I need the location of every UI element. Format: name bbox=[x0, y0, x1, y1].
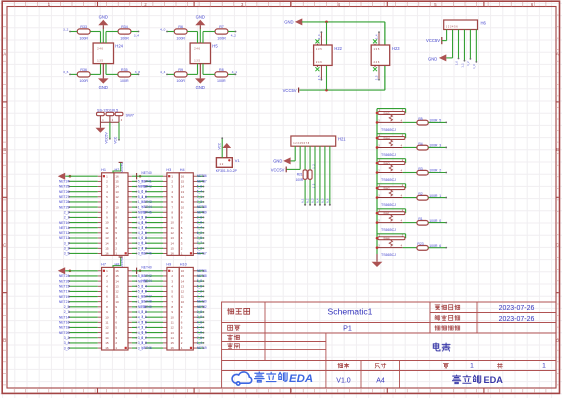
svg-text:1: 1 bbox=[470, 363, 474, 370]
svg-text:12: 12 bbox=[115, 290, 119, 294]
svg-text:GND: GND bbox=[428, 56, 437, 61]
svg-text:NET21: NET21 bbox=[59, 300, 70, 304]
svg-text:R2: R2 bbox=[418, 192, 422, 196]
svg-text:R4: R4 bbox=[418, 142, 422, 146]
svg-text:1 3 5: 1 3 5 bbox=[374, 47, 380, 51]
svg-text:12: 12 bbox=[105, 231, 109, 235]
svg-text:11: 11 bbox=[105, 226, 108, 230]
svg-text:R8: R8 bbox=[219, 68, 224, 72]
svg-text:3_3: 3_3 bbox=[64, 247, 70, 251]
svg-text:GND: GND bbox=[284, 20, 293, 25]
svg-text:100R: 100R bbox=[176, 36, 185, 40]
svg-text:2_5: 2_5 bbox=[141, 320, 147, 324]
svg-text:4_8: 4_8 bbox=[141, 289, 147, 293]
svg-text:3_4: 3_4 bbox=[134, 34, 139, 38]
svg-text:C: C bbox=[3, 243, 6, 248]
svg-text:13: 13 bbox=[115, 190, 119, 194]
svg-text:A4: A4 bbox=[376, 378, 385, 385]
svg-text:0_1: 0_1 bbox=[141, 241, 147, 245]
svg-text:B: B bbox=[3, 147, 6, 152]
svg-text:TS665CJ: TS665CJ bbox=[381, 253, 396, 257]
svg-text:SW1: SW1 bbox=[383, 212, 390, 216]
svg-text:NET24: NET24 bbox=[59, 274, 70, 278]
svg-text:NET45: NET45 bbox=[141, 210, 151, 214]
svg-text:4_0: 4_0 bbox=[160, 27, 165, 31]
svg-text:D: D bbox=[556, 338, 559, 343]
svg-text:A_2: A_2 bbox=[307, 198, 310, 203]
svg-text:2_5: 2_5 bbox=[64, 305, 70, 309]
svg-text:NET13: NET13 bbox=[59, 236, 70, 240]
svg-text:14: 14 bbox=[171, 336, 175, 340]
svg-text:2_7: 2_7 bbox=[141, 325, 147, 329]
svg-text:1 2 3 4 5 6 7 8: 1 2 3 4 5 6 7 8 bbox=[293, 142, 310, 145]
svg-text:R35: R35 bbox=[121, 68, 128, 72]
svg-text:GND: GND bbox=[196, 85, 205, 90]
svg-text:1 3 5: 1 3 5 bbox=[97, 59, 103, 62]
svg-text:NET12: NET12 bbox=[59, 231, 70, 235]
svg-text:NET10: NET10 bbox=[59, 221, 70, 225]
svg-text:1 2 3 4 5 6: 1 2 3 4 5 6 bbox=[446, 26, 458, 29]
svg-text:7_3: 7_3 bbox=[197, 200, 203, 204]
svg-text:2 4 6: 2 4 6 bbox=[316, 60, 322, 64]
svg-text:11: 11 bbox=[181, 200, 184, 204]
svg-text:0_8: 0_8 bbox=[197, 310, 203, 314]
svg-text:2_9: 2_9 bbox=[197, 315, 203, 319]
svg-text:NET16: NET16 bbox=[59, 321, 70, 325]
svg-text:16: 16 bbox=[181, 269, 185, 273]
svg-text:100R_5: 100R_5 bbox=[429, 119, 441, 123]
svg-text:H10: H10 bbox=[180, 263, 187, 267]
svg-text:NET29: NET29 bbox=[59, 205, 70, 209]
svg-text:NET19: NET19 bbox=[59, 295, 70, 299]
svg-text:100R: 100R bbox=[120, 36, 129, 40]
svg-text:3_3: 3_3 bbox=[141, 341, 147, 345]
svg-text:H23: H23 bbox=[392, 46, 400, 51]
svg-text:SW2: SW2 bbox=[383, 187, 390, 191]
svg-text:NET25: NET25 bbox=[59, 185, 70, 189]
svg-text:100R: 100R bbox=[176, 79, 185, 83]
svg-text:16: 16 bbox=[105, 252, 109, 256]
svg-text:1 3 5: 1 3 5 bbox=[194, 59, 200, 62]
svg-text:Schematic1: Schematic1 bbox=[328, 307, 373, 317]
svg-text:100R_0: 100R_0 bbox=[429, 219, 441, 223]
svg-text:15: 15 bbox=[181, 274, 185, 278]
svg-text:V1: V1 bbox=[235, 158, 241, 163]
svg-text:NET38: NET38 bbox=[197, 274, 207, 278]
svg-text:1_2: 1_2 bbox=[197, 246, 203, 250]
svg-text:3_6: 3_6 bbox=[64, 346, 70, 350]
svg-text:NET42: NET42 bbox=[141, 274, 151, 278]
svg-text:11: 11 bbox=[115, 200, 118, 204]
svg-text:2_1: 2_1 bbox=[141, 315, 147, 319]
svg-text:12: 12 bbox=[105, 326, 109, 330]
svg-text:VCC5V: VCC5V bbox=[271, 167, 285, 172]
svg-text:H7: H7 bbox=[101, 263, 106, 267]
svg-text:NET19: NET19 bbox=[197, 346, 207, 350]
svg-text:15: 15 bbox=[181, 180, 185, 184]
svg-text:H5: H5 bbox=[212, 44, 218, 49]
svg-text:13: 13 bbox=[171, 236, 175, 240]
svg-text:TS665CJ: TS665CJ bbox=[381, 203, 396, 207]
svg-text:7_8: 7_8 bbox=[197, 336, 203, 340]
svg-text:NET27: NET27 bbox=[59, 195, 70, 199]
svg-text:0_2: 0_2 bbox=[141, 190, 147, 194]
svg-text:R1: R1 bbox=[418, 217, 422, 221]
svg-text:2_8: 2_8 bbox=[197, 221, 203, 225]
svg-text:R21: R21 bbox=[297, 172, 303, 176]
svg-text:100R: 100R bbox=[296, 178, 304, 182]
svg-text:A_6: A_6 bbox=[326, 198, 329, 203]
svg-text:GND: GND bbox=[196, 15, 205, 20]
svg-text:2_3: 2_3 bbox=[141, 310, 147, 314]
svg-text:16: 16 bbox=[115, 269, 119, 273]
svg-text:1_1: 1_1 bbox=[460, 63, 464, 68]
svg-text:7_7: 7_7 bbox=[197, 241, 203, 245]
svg-text:16: 16 bbox=[181, 174, 185, 178]
svg-text:GND: GND bbox=[273, 159, 282, 164]
svg-text:NET39: NET39 bbox=[197, 210, 207, 214]
svg-text:14: 14 bbox=[115, 279, 119, 283]
svg-text:VCC: VCC bbox=[218, 142, 222, 149]
svg-text:3_2: 3_2 bbox=[141, 246, 147, 250]
svg-text:1_2: 1_2 bbox=[466, 61, 470, 66]
svg-text:NET41: NET41 bbox=[141, 179, 151, 183]
svg-text:A_5: A_5 bbox=[322, 198, 325, 203]
svg-text:VCC5V: VCC5V bbox=[426, 38, 440, 43]
svg-text:13: 13 bbox=[171, 331, 175, 335]
svg-text:15: 15 bbox=[115, 274, 119, 278]
svg-text:NET11: NET11 bbox=[59, 226, 69, 230]
svg-text:14: 14 bbox=[181, 185, 185, 189]
svg-text:P1: P1 bbox=[343, 324, 352, 333]
svg-text:14: 14 bbox=[105, 336, 109, 340]
svg-text:H3: H3 bbox=[166, 168, 171, 172]
svg-text:1 2: 1 2 bbox=[220, 162, 224, 166]
svg-text:100R_3: 100R_3 bbox=[429, 144, 441, 148]
svg-text:GND: GND bbox=[99, 15, 108, 20]
svg-text:VCC5V: VCC5V bbox=[120, 163, 124, 173]
svg-text:NET20: NET20 bbox=[59, 331, 70, 335]
svg-text:12: 12 bbox=[115, 195, 119, 199]
svg-text:VCC: VCC bbox=[114, 136, 118, 144]
svg-text:NET32: NET32 bbox=[197, 305, 207, 309]
svg-text:V1.0: V1.0 bbox=[336, 378, 351, 385]
svg-text:NET44: NET44 bbox=[141, 279, 151, 283]
svg-text:NET46: NET46 bbox=[141, 251, 151, 255]
svg-text:NET42: NET42 bbox=[141, 185, 151, 189]
svg-text:NET14: NET14 bbox=[59, 315, 70, 319]
svg-text:TS665CJ: TS665CJ bbox=[381, 153, 396, 157]
svg-text:NET44: NET44 bbox=[141, 205, 151, 209]
svg-text:NET26: NET26 bbox=[59, 279, 70, 283]
svg-text:16: 16 bbox=[115, 174, 119, 178]
svg-text:10: 10 bbox=[105, 221, 109, 225]
svg-text:3_5: 3_5 bbox=[375, 75, 379, 80]
svg-text:6_4: 6_4 bbox=[197, 325, 203, 329]
svg-text:7_2: 7_2 bbox=[197, 289, 203, 293]
svg-text:2_6: 2_6 bbox=[141, 231, 147, 235]
svg-text:R6: R6 bbox=[178, 25, 183, 29]
svg-text:11: 11 bbox=[105, 320, 108, 324]
svg-text:3_2: 3_2 bbox=[63, 27, 68, 31]
svg-text:10: 10 bbox=[181, 300, 185, 304]
svg-text:7_5: 7_5 bbox=[197, 236, 203, 240]
svg-text:4_4: 4_4 bbox=[197, 226, 203, 230]
svg-text:SW3: SW3 bbox=[383, 162, 390, 166]
svg-text:B: B bbox=[556, 147, 559, 152]
svg-text:EDA: EDA bbox=[484, 375, 504, 385]
svg-text:NET36: NET36 bbox=[197, 269, 207, 273]
svg-text:2_7: 2_7 bbox=[64, 310, 70, 314]
svg-text:14: 14 bbox=[171, 241, 175, 245]
svg-text:15: 15 bbox=[171, 341, 175, 345]
svg-text:2023-07-26: 2023-07-26 bbox=[499, 316, 535, 323]
svg-text:1_3: 1_3 bbox=[472, 64, 476, 69]
svg-text:A_4: A_4 bbox=[317, 198, 320, 203]
svg-text:14: 14 bbox=[181, 279, 185, 283]
svg-text:NET18: NET18 bbox=[59, 326, 70, 330]
svg-text:NET15: NET15 bbox=[59, 284, 70, 288]
svg-text:13: 13 bbox=[181, 284, 185, 288]
svg-text:13: 13 bbox=[181, 190, 185, 194]
svg-text:0_3: 0_3 bbox=[141, 236, 147, 240]
svg-text:100R: 100R bbox=[79, 79, 88, 83]
svg-text:4_1: 4_1 bbox=[232, 70, 237, 74]
svg-text:KF301-5.0-2P: KF301-5.0-2P bbox=[216, 169, 238, 173]
svg-text:1_0: 1_0 bbox=[454, 61, 458, 66]
svg-text:3_5: 3_5 bbox=[64, 252, 70, 256]
svg-text:16: 16 bbox=[171, 252, 175, 256]
svg-text:5_6: 5_6 bbox=[197, 185, 203, 189]
svg-text:SW5: SW5 bbox=[383, 111, 390, 115]
svg-text:TS665CJ: TS665CJ bbox=[381, 128, 396, 132]
svg-text:SW6: SW6 bbox=[383, 237, 390, 241]
svg-text:6_2: 6_2 bbox=[197, 231, 203, 235]
svg-text:3_6: 3_6 bbox=[63, 70, 68, 74]
svg-text:12: 12 bbox=[181, 195, 185, 199]
svg-text:15: 15 bbox=[115, 180, 119, 184]
svg-text:12: 12 bbox=[171, 326, 175, 330]
svg-text:12: 12 bbox=[181, 290, 185, 294]
svg-text:100R_6: 100R_6 bbox=[429, 244, 441, 248]
svg-text:2_3: 2_3 bbox=[64, 210, 70, 214]
svg-text:H24: H24 bbox=[115, 44, 123, 49]
svg-text:NET36: NET36 bbox=[197, 174, 207, 178]
svg-text:2 4 6: 2 4 6 bbox=[97, 47, 103, 50]
svg-text:15: 15 bbox=[105, 246, 109, 250]
svg-text:H22: H22 bbox=[334, 46, 342, 51]
svg-text:NET17: NET17 bbox=[197, 251, 207, 255]
svg-text:NET17: NET17 bbox=[59, 290, 70, 294]
svg-text:3_4: 3_4 bbox=[317, 34, 321, 39]
svg-text:11: 11 bbox=[171, 226, 174, 230]
svg-text:NET37: NET37 bbox=[197, 179, 207, 183]
svg-text:3_4: 3_4 bbox=[64, 341, 70, 345]
svg-text:10: 10 bbox=[105, 315, 109, 319]
svg-text:1 3 5: 1 3 5 bbox=[316, 47, 322, 51]
svg-text:100R: 100R bbox=[120, 79, 129, 83]
svg-text:1: 1 bbox=[542, 363, 546, 370]
svg-text:100R: 100R bbox=[217, 36, 226, 40]
svg-text:H1: H1 bbox=[101, 168, 106, 172]
svg-text:TS665CJ: TS665CJ bbox=[381, 228, 396, 232]
svg-text:A_3: A_3 bbox=[312, 198, 315, 203]
svg-text:3_1: 3_1 bbox=[64, 241, 70, 245]
svg-text:H6: H6 bbox=[481, 21, 487, 26]
svg-text:15: 15 bbox=[171, 246, 175, 250]
svg-text:GND: GND bbox=[99, 85, 108, 90]
svg-text:VCC5V: VCC5V bbox=[120, 257, 124, 267]
svg-text:14: 14 bbox=[105, 241, 109, 245]
svg-text:NET40: NET40 bbox=[141, 171, 151, 175]
svg-text:2 4 6: 2 4 6 bbox=[374, 60, 380, 64]
svg-text:2023-07-26: 2023-07-26 bbox=[499, 305, 535, 312]
svg-text:0_6: 0_6 bbox=[197, 215, 203, 219]
svg-text:1_4: 1_4 bbox=[197, 341, 203, 345]
svg-text:R5: R5 bbox=[418, 117, 422, 121]
svg-text:EDA: EDA bbox=[289, 373, 313, 385]
svg-text:NET40: NET40 bbox=[141, 266, 151, 270]
svg-text:2_2: 2_2 bbox=[141, 215, 147, 219]
svg-text:A: A bbox=[3, 52, 6, 57]
svg-text:R34: R34 bbox=[121, 25, 128, 29]
svg-text:13: 13 bbox=[115, 284, 119, 288]
svg-text:5_4: 5_4 bbox=[197, 190, 203, 194]
svg-text:100R: 100R bbox=[79, 36, 88, 40]
svg-text:3_8: 3_8 bbox=[135, 70, 140, 74]
svg-text:SW7: SW7 bbox=[126, 113, 134, 118]
svg-text:3_5: 3_5 bbox=[317, 75, 321, 80]
svg-text:NET26: NET26 bbox=[59, 190, 70, 194]
svg-text:2_4: 2_4 bbox=[141, 226, 147, 230]
svg-text:10: 10 bbox=[171, 221, 175, 225]
svg-text:14: 14 bbox=[115, 185, 119, 189]
svg-text:2_1: 2_1 bbox=[64, 216, 70, 220]
svg-text:4_6: 4_6 bbox=[141, 195, 147, 199]
svg-text:H4: H4 bbox=[180, 168, 185, 172]
svg-text:NET46: NET46 bbox=[141, 346, 151, 350]
svg-text:5_5: 5_5 bbox=[197, 284, 203, 288]
svg-text:4_2: 4_2 bbox=[231, 34, 236, 38]
svg-text:11: 11 bbox=[171, 320, 174, 324]
svg-text:5_8: 5_8 bbox=[197, 279, 203, 283]
svg-text:100R: 100R bbox=[217, 79, 226, 83]
svg-text:0_7: 0_7 bbox=[141, 336, 147, 340]
svg-text:NET47: NET47 bbox=[141, 295, 151, 299]
svg-text:16: 16 bbox=[105, 346, 109, 350]
svg-text:16: 16 bbox=[171, 346, 175, 350]
svg-text:A: A bbox=[556, 52, 559, 57]
svg-text:C: C bbox=[556, 243, 559, 248]
svg-text:R7: R7 bbox=[219, 25, 224, 29]
svg-text:0_5: 0_5 bbox=[141, 331, 147, 335]
svg-text:TS665CJ: TS665CJ bbox=[381, 178, 396, 182]
svg-text:0_4: 0_4 bbox=[141, 284, 147, 288]
svg-text:R33: R33 bbox=[80, 25, 87, 29]
svg-text:R3: R3 bbox=[418, 167, 422, 171]
svg-text:NET49: NET49 bbox=[141, 305, 151, 309]
svg-text:10: 10 bbox=[115, 300, 119, 304]
svg-text:H9: H9 bbox=[166, 263, 171, 267]
svg-text:100R_2: 100R_2 bbox=[429, 169, 441, 173]
svg-text:2 4 6: 2 4 6 bbox=[194, 47, 200, 50]
svg-text:NET38: NET38 bbox=[197, 205, 207, 209]
svg-text:NET30: NET30 bbox=[197, 300, 207, 304]
svg-text:11: 11 bbox=[181, 295, 184, 299]
svg-text:NET28: NET28 bbox=[59, 200, 70, 204]
svg-text:10: 10 bbox=[171, 315, 175, 319]
svg-text:R23: R23 bbox=[417, 242, 423, 246]
svg-text:H21: H21 bbox=[338, 136, 346, 141]
svg-text:2_0: 2_0 bbox=[141, 221, 147, 225]
svg-text:11: 11 bbox=[115, 295, 118, 299]
svg-text:13: 13 bbox=[105, 331, 109, 335]
svg-text:7_1: 7_1 bbox=[197, 195, 203, 199]
svg-text:R9: R9 bbox=[178, 68, 183, 72]
svg-text:A_1: A_1 bbox=[302, 198, 305, 203]
svg-text:100R_1: 100R_1 bbox=[429, 194, 441, 198]
svg-text:3_2: 3_2 bbox=[64, 336, 70, 340]
svg-text:15: 15 bbox=[105, 341, 109, 345]
svg-text:4_4: 4_4 bbox=[160, 70, 165, 74]
svg-text:NET48: NET48 bbox=[141, 300, 151, 304]
svg-text:NET24: NET24 bbox=[59, 180, 70, 184]
svg-text:7_6: 7_6 bbox=[197, 331, 203, 335]
svg-text:D: D bbox=[3, 338, 6, 343]
svg-text:NET43: NET43 bbox=[141, 200, 151, 204]
svg-text:R36: R36 bbox=[80, 68, 87, 72]
svg-text:13: 13 bbox=[105, 236, 109, 240]
svg-text:SW4: SW4 bbox=[383, 136, 390, 140]
svg-text:10: 10 bbox=[181, 205, 185, 209]
svg-text:3_4: 3_4 bbox=[375, 34, 379, 39]
svg-text:4_6: 4_6 bbox=[197, 320, 203, 324]
svg-text:10: 10 bbox=[115, 205, 119, 209]
svg-text:7_4: 7_4 bbox=[197, 295, 203, 299]
svg-text:VCC5V: VCC5V bbox=[283, 88, 297, 93]
svg-text:12: 12 bbox=[171, 231, 175, 235]
svg-text:VCC5V: VCC5V bbox=[105, 132, 109, 144]
